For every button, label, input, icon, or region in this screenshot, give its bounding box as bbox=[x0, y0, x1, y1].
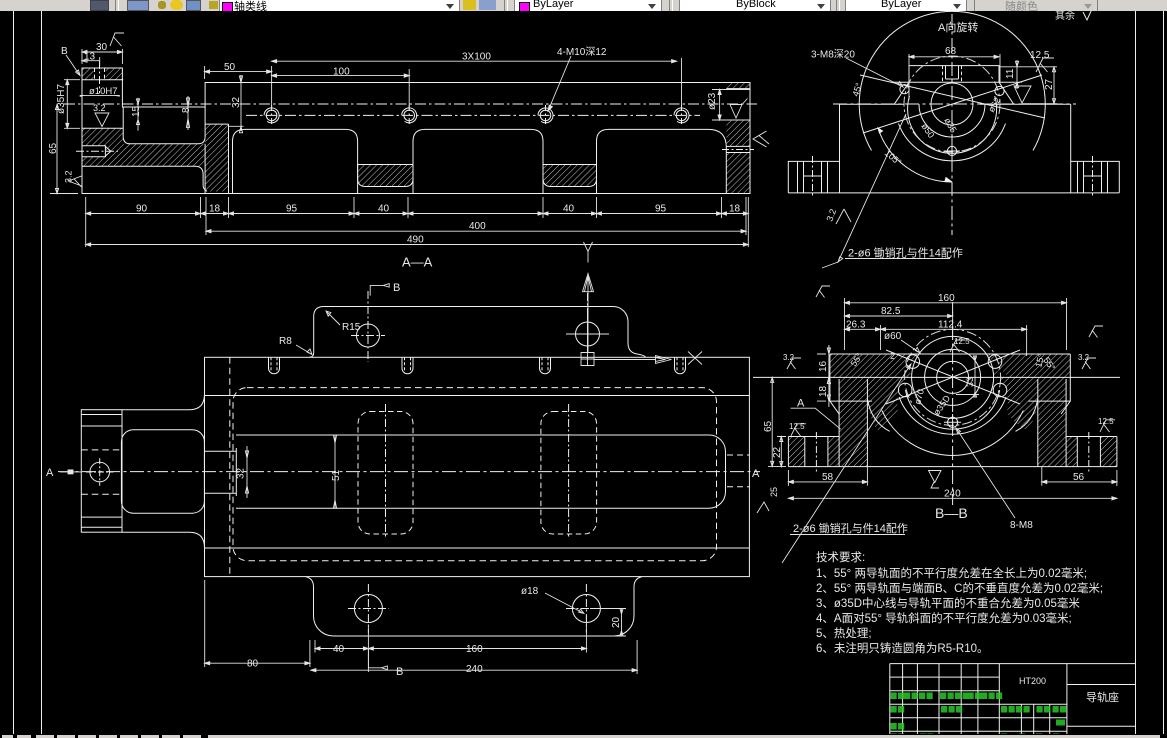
leader R15 bbox=[326, 311, 340, 325]
svg-text:12.5: 12.5 bbox=[954, 337, 970, 346]
svg-text:ø18: ø18 bbox=[521, 586, 539, 597]
leader o18 bbox=[545, 593, 584, 614]
rail slot 51 upper/lower with round right end bbox=[236, 435, 726, 508]
svg-text:ø10H7: ø10H7 bbox=[89, 86, 118, 97]
lobe hole right bbox=[576, 322, 600, 346]
front view hatch: ear block left of hole bbox=[82, 68, 94, 80]
neck top line with fillet bbox=[122, 394, 205, 410]
A-view annotations bbox=[822, 54, 1057, 268]
row: sheji / biaozhunhua bbox=[891, 706, 897, 713]
svg-text:8-M8: 8-M8 bbox=[1010, 520, 1033, 531]
A-view bottom line bbox=[788, 192, 1119, 194]
BB foot centerline right bbox=[1088, 432, 1090, 472]
rail line upper full bbox=[205, 395, 750, 397]
BB saddle arch r78 bbox=[882, 410, 1023, 455]
slot between ear and leg bbox=[123, 107, 205, 144]
A-view left foot bbox=[788, 161, 839, 193]
front view hatch: band under slot bbox=[123, 144, 205, 167]
A-view body rect bbox=[840, 104, 1071, 193]
dim 56 bbox=[1042, 467, 1117, 486]
lobe hole left bbox=[357, 324, 380, 347]
svg-text:95: 95 bbox=[286, 204, 298, 215]
left leg right wall bbox=[228, 124, 230, 193]
svg-text:ø35H7: ø35H7 bbox=[56, 84, 67, 114]
slot top edge bbox=[122, 106, 205, 108]
bottom lobe bbox=[306, 577, 643, 636]
svg-text:13: 13 bbox=[84, 52, 96, 63]
radial line to upper-left hole bbox=[860, 75, 1045, 118]
front view hatch: web1 relief tub bbox=[358, 165, 413, 187]
svg-text:3.2: 3.2 bbox=[64, 170, 74, 183]
right foot hole lines bbox=[1078, 161, 1108, 193]
svg-text:ø60: ø60 bbox=[884, 331, 902, 342]
svg-text:100: 100 bbox=[333, 67, 350, 78]
BB small circle lower right bbox=[993, 383, 1007, 397]
dim o10H7 leader bbox=[80, 95, 120, 96]
datum target cross bbox=[566, 316, 609, 352]
svg-text:B—B: B—B bbox=[935, 505, 968, 521]
window 1 bbox=[233, 129, 358, 193]
bore circle bbox=[931, 83, 973, 125]
svg-text:2、55° 两导轨面与端面B、C的不垂直度允差为0.02毫米: 2、55° 两导轨面与端面B、C的不垂直度允差为0.02毫米; bbox=[816, 581, 1103, 595]
svg-text:40: 40 bbox=[333, 644, 345, 655]
bolt circle dash-dot bbox=[904, 56, 1000, 152]
left leg left wall lower bbox=[204, 144, 206, 194]
svg-text:112.4: 112.4 bbox=[938, 320, 963, 331]
svg-text:3.2: 3.2 bbox=[783, 353, 795, 362]
tower bbox=[893, 66, 1015, 104]
dim 58 bbox=[788, 467, 867, 486]
right edge hidden notch bbox=[727, 455, 749, 487]
green small label blobs bbox=[891, 693, 1067, 738]
bottom lobe hole right bbox=[572, 595, 600, 623]
svg-text:80: 80 bbox=[247, 659, 259, 670]
web slot 1 centerline bbox=[385, 404, 387, 539]
BB top edge bbox=[830, 353, 1070, 355]
left foot centerline bbox=[812, 156, 814, 198]
section fork above plan bbox=[584, 242, 593, 263]
dim 27 bbox=[999, 67, 1057, 104]
A-view vertical centerline bbox=[951, 14, 953, 235]
dim 80 bbox=[205, 580, 310, 667]
hidden vertical at leg bbox=[229, 357, 231, 576]
channel bottom line on left leg bbox=[205, 123, 228, 125]
hole right cross bbox=[566, 584, 607, 633]
channel lines 32 bbox=[205, 448, 237, 496]
svg-text:65: 65 bbox=[763, 420, 774, 432]
dim 8 bbox=[186, 96, 189, 130]
dim 32 bbox=[229, 75, 244, 133]
svg-text:5、热处理;: 5、热处理; bbox=[816, 627, 872, 640]
datum square with cross bbox=[581, 353, 594, 366]
svg-text:A: A bbox=[46, 467, 54, 479]
roughness 3.2 left outer bbox=[787, 358, 801, 369]
M10 hole circles on side face bbox=[264, 108, 689, 123]
dim 400 bbox=[206, 197, 746, 235]
dim 11 bbox=[1015, 60, 1022, 89]
roughness small right bbox=[1089, 326, 1103, 338]
slot rounded rect bbox=[121, 430, 204, 514]
chain dim line 90/18/95/40/40/95/18 bbox=[86, 197, 749, 247]
svg-text:40: 40 bbox=[378, 204, 390, 215]
BB hatch left foot bbox=[788, 437, 804, 467]
title right cells bbox=[1067, 685, 1135, 727]
svg-text:26.3: 26.3 bbox=[846, 320, 866, 331]
sheet frame left inner line bbox=[41, 11, 43, 734]
svg-text:32: 32 bbox=[236, 467, 247, 479]
roughness 3.2 under bore (inside) bbox=[95, 113, 109, 127]
BB hatch band right bbox=[988, 354, 1070, 377]
ear hole dashed walls bbox=[95, 68, 105, 80]
svg-text:1、55° 两导轨面的不平行度允差在全长上为0.02毫米;: 1、55° 两导轨面的不平行度允差在全长上为0.02毫米; bbox=[816, 566, 1087, 580]
front view hatch: right leg top strip bbox=[726, 83, 750, 89]
dim 13 bbox=[82, 57, 100, 66]
svg-text:82.5: 82.5 bbox=[881, 306, 901, 317]
leftover surface note top right bbox=[1055, 9, 1092, 22]
BB foot hole walls left bbox=[805, 437, 828, 467]
svg-text:30: 30 bbox=[96, 42, 108, 53]
left face tapped hole bbox=[82, 146, 111, 157]
left foot hole lines bbox=[798, 161, 828, 193]
svg-text:R15: R15 bbox=[342, 322, 361, 333]
svg-text:A—A: A—A bbox=[402, 255, 433, 270]
leader o60 bbox=[901, 340, 920, 353]
arc r57 bbox=[899, 124, 1006, 161]
window 3 bbox=[597, 129, 727, 193]
dim o23 right leg bbox=[712, 90, 750, 121]
BB block walls bbox=[839, 379, 1066, 467]
BB M8 bottom circle bbox=[948, 417, 958, 427]
svg-text:HT200: HT200 bbox=[1019, 676, 1046, 686]
svg-text:12.5: 12.5 bbox=[1098, 417, 1114, 426]
front view hatch: left leg bbox=[205, 124, 228, 191]
B leader at ear bbox=[66, 55, 80, 76]
dim 50 bbox=[205, 66, 272, 108]
svg-text:95: 95 bbox=[655, 204, 667, 215]
A-view horizontal centerline bbox=[833, 103, 1076, 105]
cap hidden bore lines bbox=[81, 450, 122, 494]
cap ring lines bbox=[81, 415, 122, 528]
BB counterbore circle bbox=[925, 349, 981, 405]
hidden base rect dashed bbox=[233, 388, 717, 561]
radial line to upper-right hole bbox=[863, 75, 1042, 133]
svg-text:90: 90 bbox=[136, 204, 148, 215]
dim 160 bbox=[845, 298, 1067, 350]
datum line and arrow bbox=[594, 356, 671, 364]
BB cross diagonals bbox=[886, 350, 1020, 404]
section A arrow left bbox=[60, 471, 81, 473]
A-view right foot bbox=[1071, 161, 1120, 193]
lobe hole left cross bbox=[351, 291, 385, 362]
svg-text:18: 18 bbox=[209, 204, 221, 215]
svg-text:160: 160 bbox=[466, 644, 483, 655]
svg-text:240: 240 bbox=[466, 664, 483, 675]
BB bottom line bbox=[788, 466, 1117, 468]
right leg pin hole bbox=[726, 146, 750, 152]
M8 hole bottom bbox=[947, 146, 956, 155]
row: biaoji/chushu/fenqu/genggai/qianming/riqi bbox=[891, 693, 897, 700]
front view hatch: ear block right of hole bbox=[106, 68, 123, 80]
dim 40/160 bottom bbox=[315, 616, 586, 672]
holes row centerline bbox=[246, 114, 700, 116]
BB pin circle left bbox=[906, 355, 920, 369]
title mid verticals bbox=[1021, 664, 1067, 738]
dimensions of front view bbox=[50, 33, 769, 247]
cap pin hole circle bbox=[90, 462, 110, 482]
right foot centerline bbox=[1092, 156, 1094, 198]
BB feet bbox=[788, 437, 1117, 467]
status bar sliver at bottom bbox=[0, 734, 1167, 738]
leader 4-M10 bbox=[548, 56, 571, 111]
svg-text:240: 240 bbox=[944, 488, 961, 499]
svg-text:20: 20 bbox=[611, 616, 622, 628]
BB bolt circle dash bbox=[905, 329, 1001, 425]
svg-text:B: B bbox=[61, 46, 68, 57]
svg-text:3X100: 3X100 bbox=[462, 52, 491, 63]
svg-text:3.2: 3.2 bbox=[1078, 353, 1090, 362]
BB foot centerline left bbox=[815, 432, 817, 472]
plan main rectangle bbox=[205, 357, 750, 576]
svg-text:B: B bbox=[393, 282, 400, 294]
section arrow triangle bbox=[583, 274, 594, 292]
front view hatch: right leg mid bbox=[726, 120, 750, 146]
leader pin note BB bbox=[782, 364, 911, 563]
roughness 12.5 top right bbox=[1036, 58, 1054, 72]
svg-text:技术要求:: 技术要求: bbox=[816, 551, 865, 564]
M8 hole upper left bbox=[900, 85, 909, 94]
svg-text:18: 18 bbox=[729, 204, 741, 215]
underline pin note BB bbox=[790, 534, 905, 536]
sheet frame right outer line bbox=[1163, 11, 1165, 734]
svg-text:A: A bbox=[797, 398, 805, 410]
M10 hole vertical centerlines bbox=[272, 105, 682, 126]
svg-text:2: 2 bbox=[890, 351, 895, 361]
svg-text:12.5: 12.5 bbox=[1030, 50, 1050, 61]
counterbore arc r33 bbox=[919, 104, 985, 137]
datum A flag bbox=[791, 408, 841, 429]
BB outer side edges bbox=[830, 354, 1070, 414]
BB foot hole walls right bbox=[1077, 437, 1100, 467]
web slot 2 centerline bbox=[568, 404, 570, 539]
BB arc r57 bbox=[899, 397, 1006, 434]
roughness 12.5 right foot bbox=[1100, 420, 1115, 432]
arc r44.5 bbox=[908, 96, 997, 153]
title rows left grid bbox=[890, 677, 1067, 731]
svg-text:A: A bbox=[752, 468, 760, 480]
svg-text:3-M8深20: 3-M8深20 bbox=[811, 49, 855, 61]
svg-text:22: 22 bbox=[772, 446, 783, 458]
roughness 12.5 left foot bbox=[791, 424, 806, 436]
BB hatch left flank bbox=[867, 377, 905, 430]
dim 33 vertical at bore bbox=[956, 356, 979, 397]
row4 bottom: shenhe/pizhun etc bbox=[891, 734, 897, 738]
toolbar strip (cut off at top of window) bbox=[0, 0, 1167, 11]
BB annotations bbox=[757, 286, 1117, 563]
B cut mark top bbox=[370, 284, 389, 296]
dim 16 bbox=[817, 345, 831, 383]
A-view big arc bbox=[859, 11, 1045, 150]
dim 26.3 / 112.4 bbox=[845, 325, 1027, 356]
dim 22 bbox=[777, 437, 786, 467]
bore o35H7 walls bbox=[82, 80, 123, 129]
svg-text:12.5: 12.5 bbox=[789, 422, 805, 431]
dim 82.5 bbox=[845, 311, 953, 340]
mid: jieduan biaoji / zhongliang / bili bbox=[1001, 706, 1007, 713]
pin hole cross bbox=[86, 458, 113, 485]
title cols left grid bbox=[903, 664, 1000, 738]
BB web curve right bbox=[1016, 399, 1038, 431]
hidden web slot 1 bbox=[358, 412, 413, 535]
right leg pin centerline bbox=[722, 149, 754, 151]
BB hatch band left bbox=[830, 354, 920, 377]
right leg o23 hole lines bbox=[726, 89, 750, 120]
svg-text:490: 490 bbox=[407, 235, 424, 246]
top lobe bbox=[309, 307, 645, 358]
svg-text:58: 58 bbox=[822, 472, 834, 483]
roughness 12.5 top center bbox=[950, 340, 965, 352]
pin note underline bbox=[822, 259, 950, 269]
left face hole centerline bbox=[76, 150, 118, 152]
front view hatch: web2 relief tub bbox=[543, 165, 597, 187]
dim 20 bbox=[590, 609, 626, 637]
pin note leader bbox=[838, 114, 906, 262]
svg-text:32: 32 bbox=[231, 96, 242, 108]
svg-text:8: 8 bbox=[181, 107, 192, 113]
title block outer bbox=[890, 664, 1135, 738]
dim 490 bbox=[86, 244, 749, 246]
check lower left bbox=[757, 502, 769, 513]
sheet frame right inner line bbox=[1135, 11, 1137, 734]
leader 8-M8 bbox=[956, 428, 1015, 518]
dim 18 bbox=[817, 371, 831, 407]
roughness in right leg bbox=[730, 99, 748, 119]
BB hatch right flank bbox=[1000, 377, 1038, 430]
roughness mark lower left bbox=[836, 209, 851, 224]
dim o35H7 vertical bbox=[64, 80, 80, 129]
dim 15 bbox=[136, 98, 139, 131]
BB circle o60 bbox=[912, 336, 994, 418]
svg-text:160: 160 bbox=[938, 293, 955, 304]
svg-text:16: 16 bbox=[818, 360, 829, 372]
front view outer outline bbox=[82, 68, 750, 194]
svg-text:51: 51 bbox=[331, 469, 342, 481]
dim 240 BB bbox=[788, 497, 1117, 499]
plan annotations bbox=[60, 242, 702, 674]
roughness 3.2 right outer bbox=[1082, 358, 1096, 369]
roughness 3.2 left bottom bbox=[69, 176, 82, 187]
roughness right of leg bbox=[753, 131, 769, 147]
svg-text:50: 50 bbox=[224, 62, 236, 73]
svg-text:15: 15 bbox=[131, 105, 142, 117]
sheet frame left outer line bbox=[13, 11, 15, 734]
svg-text:3、ø35D中心线与导轨平面的不重合允差为0.05毫米: 3、ø35D中心线与导轨平面的不重合允差为0.05毫米 bbox=[816, 596, 1080, 610]
BB bore circle bbox=[937, 361, 969, 393]
front view hatch: right leg bottom bbox=[726, 153, 750, 194]
svg-text:A向旋转: A向旋转 bbox=[938, 20, 978, 34]
dim 100 bbox=[272, 69, 410, 108]
dim arc 105 bbox=[878, 128, 952, 182]
leader R8 bbox=[296, 345, 312, 355]
tower hole dashed bbox=[943, 66, 962, 83]
M10 marks on top edge bbox=[269, 357, 686, 374]
front view hatch: left column below bore bbox=[82, 128, 123, 166]
roughness bottom center bbox=[929, 471, 942, 489]
M8 hole upper right bbox=[995, 86, 1004, 95]
svg-text:R8: R8 bbox=[279, 336, 292, 347]
dim 240 plan bbox=[311, 640, 637, 674]
ear hole centerline bbox=[99, 61, 101, 93]
svg-text:4、A面对55° 导轨斜面的不平行度允差为0.03毫米;: 4、A面对55° 导轨斜面的不平行度允差为0.03毫米; bbox=[816, 611, 1072, 625]
leader 3-M8 bbox=[846, 58, 903, 87]
svg-text:400: 400 bbox=[469, 221, 486, 232]
BB web curve left bbox=[867, 399, 889, 431]
BB hatch right block bbox=[1038, 377, 1066, 466]
svg-text:68: 68 bbox=[945, 46, 957, 57]
BB small circle lower left bbox=[898, 383, 912, 397]
dim 3X100 bbox=[272, 58, 682, 108]
dim 65 BB bbox=[768, 377, 786, 466]
lobe hole right cross bbox=[587, 293, 589, 316]
hidden web slot 2 bbox=[541, 412, 597, 535]
svg-text:27: 27 bbox=[1044, 78, 1055, 90]
BB hatch left block bbox=[839, 377, 867, 466]
svg-text:B: B bbox=[396, 666, 403, 678]
slope roughness V bbox=[1014, 86, 1031, 103]
bottom hole cross bbox=[944, 143, 960, 159]
dim 68 bbox=[909, 54, 1000, 100]
rest roughness check bbox=[1083, 9, 1092, 20]
BB hatch right foot bbox=[1066, 437, 1077, 467]
BB top surface long trace bbox=[753, 376, 1120, 378]
bottom lobe hole left bbox=[354, 595, 382, 623]
dim 65 left bbox=[50, 105, 78, 194]
tower top hole bbox=[946, 66, 959, 79]
rail line lower full bbox=[205, 547, 750, 549]
roughness mark above ear bbox=[110, 33, 124, 46]
main bore centerline bbox=[64, 103, 757, 105]
plan centerline A-A bbox=[58, 471, 760, 473]
svg-text:25: 25 bbox=[769, 487, 779, 497]
bottom relief edge bbox=[82, 166, 207, 191]
svg-text:4-M10深12: 4-M10深12 bbox=[557, 46, 607, 58]
BB groove depth lines bbox=[830, 400, 1070, 402]
svg-text:导轨座: 导轨座 bbox=[1086, 690, 1119, 704]
B cut mark bottom bbox=[368, 649, 387, 670]
plan left cap bbox=[81, 410, 122, 533]
svg-text:3.2: 3.2 bbox=[93, 103, 106, 113]
dim 30 bbox=[82, 49, 122, 64]
svg-text:56: 56 bbox=[1073, 472, 1085, 483]
neck bottom line with fillet bbox=[122, 532, 205, 548]
dim 51 bbox=[333, 435, 336, 508]
svg-text:2-ø6 锄销孔与件14配作: 2-ø6 锄销孔与件14配作 bbox=[848, 246, 963, 260]
row3: gongyi + 1:1 bbox=[891, 723, 897, 730]
svg-text:ø23: ø23 bbox=[707, 92, 718, 110]
svg-text:40: 40 bbox=[563, 204, 575, 215]
svg-text:65: 65 bbox=[48, 142, 59, 154]
BB circle o70 arc bbox=[906, 390, 1000, 429]
svg-text:33: 33 bbox=[965, 377, 975, 387]
svg-text:2-ø6 锄销孔与件14配作: 2-ø6 锄销孔与件14配作 bbox=[793, 521, 908, 535]
BB pin circle right bbox=[988, 355, 1002, 369]
svg-text:18: 18 bbox=[818, 385, 829, 397]
BB vertical centerline bbox=[952, 302, 954, 505]
svg-text:11: 11 bbox=[1005, 68, 1016, 79]
svg-text:6、未注明只铸造圆角为R5-R10。: 6、未注明只铸造圆角为R5-R10。 bbox=[816, 641, 989, 655]
dim 32 plan bbox=[245, 446, 248, 498]
window 2 bbox=[413, 129, 543, 193]
roughness top left rot bbox=[816, 286, 830, 298]
